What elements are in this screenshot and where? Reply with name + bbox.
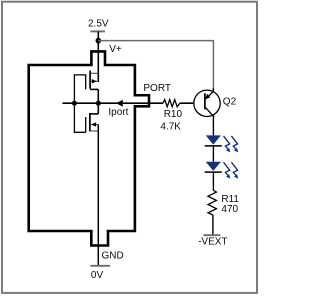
diode LED1 triangle — [206, 135, 221, 144]
arrow PORT current direction — [116, 100, 123, 107]
transistor Q2 circle — [194, 90, 220, 116]
svg-text:R10: R10 — [164, 109, 183, 120]
node gate junction dot — [72, 101, 77, 106]
svg-text:PORT: PORT — [143, 83, 171, 94]
terminal bar -VEXT — [203, 234, 220, 236]
wire LED2 to R11 — [212, 172, 214, 190]
svg-text:470: 470 — [221, 204, 238, 215]
transistor M1 gate bar — [85, 74, 87, 89]
diode LED1 cathode bar — [205, 145, 222, 147]
diode LED2 photon arrows — [224, 162, 238, 175]
node output junction dot — [96, 101, 101, 106]
svg-text:2.5V: 2.5V — [88, 18, 109, 29]
transistor M1 source stub — [91, 72, 98, 74]
diode LED2 cathode bar — [205, 171, 222, 173]
wire V+ to Q2 emitter (gray) — [98, 41, 213, 90]
wire Q2 collector to LED1 — [212, 116, 214, 135]
wire R11 to -VEXT terminal — [212, 215, 214, 235]
transistor M2 source stub — [91, 130, 99, 132]
svg-text:V+: V+ — [109, 44, 122, 55]
svg-text:Iport: Iport — [108, 107, 128, 118]
wire port horizontal left segment — [62, 102, 162, 104]
transistor M1 (PMOS) channel bar — [89, 71, 91, 89]
wire LED1 to LED2 — [212, 146, 214, 162]
transistor M2 gate bar — [85, 117, 87, 132]
power rail bar 2.5V — [90, 30, 105, 32]
svg-text:0V: 0V — [91, 270, 104, 281]
resistor R10 zigzag — [163, 100, 180, 107]
diode LED2 triangle — [206, 162, 221, 171]
transistor Q2 collector — [206, 108, 215, 118]
transistor Q2 emitter arrow — [205, 94, 210, 99]
svg-text:GND: GND — [102, 250, 124, 261]
svg-text:Q2: Q2 — [223, 97, 237, 108]
diode LED1 photon arrows — [224, 136, 238, 149]
transistor M1 drain stub — [90, 88, 98, 90]
IC box outline with pin tabs — [29, 51, 149, 245]
transistor M2 bulk stub — [91, 124, 99, 126]
transistor M2 bulk arrow — [91, 122, 96, 127]
node V+ junction dot — [96, 38, 102, 44]
transistor M2 drain stub — [90, 113, 98, 115]
svg-text:-VEXT: -VEXT — [198, 237, 227, 248]
transistor M1 bulk arrow — [92, 79, 97, 84]
wire gate bracket — [74, 75, 85, 132]
wire M1 drain to node — [97, 89, 99, 114]
transistor M1 bulk stub — [91, 80, 98, 82]
terminal bar GND (0V) — [90, 265, 110, 267]
resistor R11 zigzag — [208, 190, 216, 215]
transistor M2 (NMOS) channel bar — [89, 113, 91, 131]
transistor Q2 base bar — [204, 93, 206, 109]
wire V+ vertical from rail into box — [97, 31, 99, 82]
transistor Q2 emitter — [206, 88, 213, 99]
border frame — [2, 2, 257, 293]
svg-text:4.7K: 4.7K — [160, 121, 181, 132]
wire M2 source to GND terminal — [97, 125, 99, 266]
wire R10 to Q2 base — [180, 102, 205, 104]
